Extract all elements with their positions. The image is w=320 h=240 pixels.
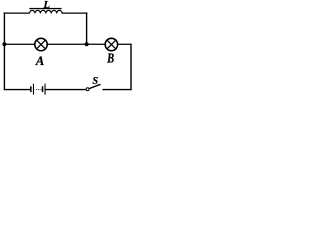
wire: right vertical rail bbox=[130, 44, 132, 91]
wire: middle horizontal bbox=[4, 43, 131, 45]
wire: left vertical rail bbox=[3, 12, 5, 90]
svg-text:S: S bbox=[93, 76, 99, 87]
inductor L core bar bbox=[29, 8, 61, 9]
wire: bottom middle horizontal battery to switch bbox=[45, 89, 85, 91]
switch pivot circle bbox=[86, 88, 89, 91]
switch blade bbox=[89, 84, 100, 88]
battery plate long 1 bbox=[33, 84, 34, 95]
wire: top-left horizontal bbox=[4, 12, 30, 14]
svg-text:B: B bbox=[106, 50, 114, 66]
battery dots bbox=[36, 89, 37, 90]
battery plate short 2 bbox=[42, 86, 44, 92]
wire: bottom-right horizontal switch to corner bbox=[102, 89, 131, 91]
node junction dot center bbox=[85, 42, 89, 46]
lamp B bbox=[105, 38, 117, 50]
switch S bbox=[86, 84, 100, 90]
inductor L coil bbox=[30, 10, 63, 13]
wire: branch drop vertical bbox=[86, 12, 88, 44]
wire: bottom-left horizontal to battery bbox=[4, 89, 31, 91]
svg-text:L: L bbox=[42, 0, 50, 11]
battery plate short 1 bbox=[30, 86, 32, 92]
battery bbox=[30, 84, 45, 95]
battery plate long 2 bbox=[45, 84, 46, 95]
lamp A bbox=[35, 38, 47, 50]
wire: top-right horizontal bbox=[62, 12, 87, 14]
node junction dot left bbox=[2, 42, 6, 46]
svg-text:A: A bbox=[35, 54, 44, 68]
